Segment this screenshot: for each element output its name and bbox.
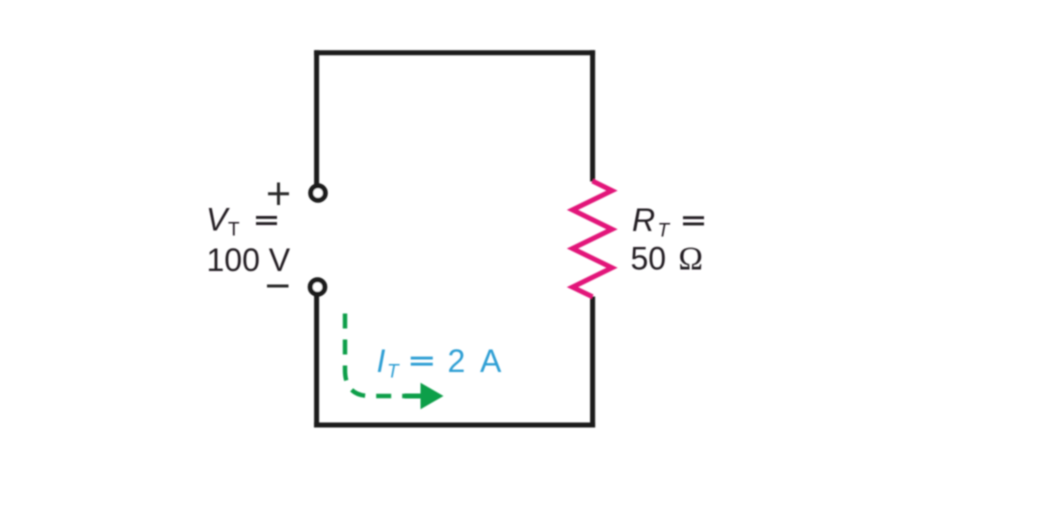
svg-text:Ω: Ω: [678, 242, 703, 278]
svg-text:T: T: [658, 221, 671, 242]
svg-text:A: A: [480, 343, 502, 379]
svg-text:R: R: [632, 202, 655, 238]
svg-text:50: 50: [631, 241, 667, 277]
svg-text:T: T: [387, 362, 400, 383]
svg-text:100 V: 100 V: [207, 242, 291, 278]
svg-text:V: V: [206, 202, 230, 238]
svg-text:T: T: [228, 220, 240, 241]
svg-text:I: I: [377, 343, 386, 379]
svg-text:2: 2: [448, 343, 466, 379]
